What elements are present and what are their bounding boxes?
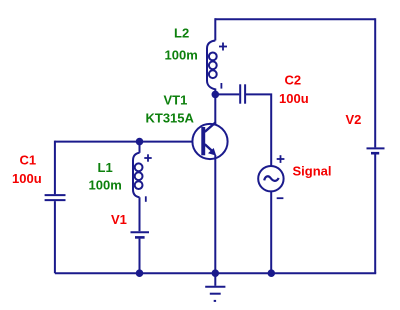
node V1 bottom junction [136,269,144,277]
wire base rail [55,141,192,143]
node L2 bottom junction [212,91,220,99]
wire left rail lower (C1 bottom lead) [54,201,56,273]
node emitter bottom junction [212,269,220,277]
node signal bottom junction [268,269,276,277]
inductor L2 [207,41,217,95]
capacitor C1 [45,195,66,200]
battery V2 [367,148,385,153]
wire right rail lower [374,154,376,273]
svg-text:100u: 100u [12,171,42,186]
svg-text:L2: L2 [174,25,189,40]
node L1 top junction [136,138,144,146]
source Signal [258,166,283,191]
svg-text:100u: 100u [279,91,309,106]
svg-text:Signal: Signal [293,164,332,179]
svg-text:KT315A: KT315A [146,110,195,125]
wire L1 to V1 [139,197,141,231]
svg-text:L1: L1 [98,160,113,175]
L1 plus mark [144,154,151,161]
svg-text:VT1: VT1 [164,93,188,108]
battery V1 [131,232,150,237]
wire C2 to signal [246,94,271,166]
svg-text:100m: 100m [89,177,122,192]
signal minus mark [277,197,284,199]
wire emitter lead [214,155,216,273]
transistor VT1 [192,122,227,159]
wire C2 left lead [215,93,239,95]
wire collector lead [214,94,216,124]
ground [205,273,225,301]
svg-text:C2: C2 [285,72,302,87]
wire L1 top lead [139,142,141,153]
wire right rail upper [374,18,376,147]
wire top rail [215,18,375,20]
L2 minus mark [220,83,222,89]
svg-text:V2: V2 [346,112,362,127]
wire signal bottom lead [270,191,272,273]
wire L2 top lead [214,18,216,40]
L1 minus mark [145,196,147,202]
inductor L1 [133,153,143,198]
signal plus mark [277,155,285,163]
svg-text:V1: V1 [111,212,127,227]
wire bottom rail [55,272,376,274]
wire left rail upper (C1 top lead) [54,141,56,195]
capacitor C2 [240,84,245,103]
L2 plus mark [219,43,227,51]
svg-text:100m: 100m [165,48,198,63]
svg-text:C1: C1 [20,153,37,168]
wire V1 bottom lead [139,239,141,274]
